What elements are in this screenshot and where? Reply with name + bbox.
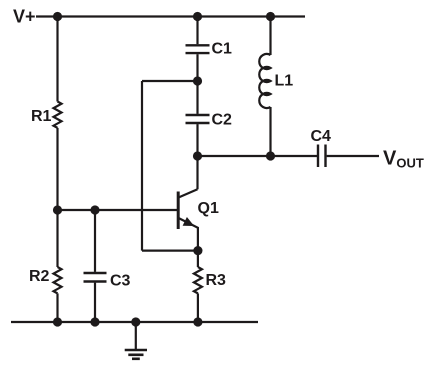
- svg-text:L1: L1: [275, 73, 294, 90]
- junction dot ground rail C3: [90, 317, 99, 326]
- wire base node to R2: [56, 210, 58, 267]
- junction dot ground rail ground symbol: [131, 317, 140, 326]
- resistor R3: [194, 267, 202, 293]
- transistor Q1 emitter arrow: [183, 217, 195, 226]
- svg-text:C4: C4: [311, 128, 332, 145]
- svg-text:C1: C1: [212, 41, 233, 58]
- svg-text:R1: R1: [31, 108, 52, 125]
- capacitor C3: [84, 273, 107, 282]
- svg-text:C2: C2: [212, 112, 233, 129]
- wire feedback vertical: [141, 81, 143, 251]
- transistor Q1 collector lead: [179, 189, 198, 197]
- wire bottom ground rail: [11, 321, 258, 323]
- capacitor C1: [186, 45, 210, 53]
- wire C1 to C2: [196, 54, 198, 114]
- capacitor C2: [186, 115, 210, 123]
- junction dot emitter node: [193, 246, 202, 255]
- wire output node horizontal: [198, 155, 318, 157]
- junction dot L1 output node: [266, 151, 275, 160]
- wire C4 to Vout: [327, 155, 379, 157]
- wire collector vertical: [196, 156, 198, 189]
- wire top rail V+: [36, 15, 305, 17]
- svg-text:VOUT: VOUT: [383, 148, 424, 171]
- resistor R2: [54, 267, 62, 293]
- ground symbol bars: [125, 350, 147, 359]
- junction dot top rail C1 column: [193, 12, 202, 21]
- inductor L1: [259, 54, 270, 108]
- svg-text:Q1: Q1: [198, 200, 219, 217]
- wire R2 bottom to ground rail: [56, 293, 58, 322]
- wire left column upper (V+ to R1): [56, 17, 58, 102]
- wire C3 top lead: [94, 210, 96, 272]
- junction dot base node C3: [90, 205, 99, 214]
- wire C2 bottom to output node: [196, 124, 198, 156]
- wire base node horizontal: [58, 209, 178, 211]
- wire feedback top horizontal: [142, 80, 198, 82]
- junction dot ground rail R2: [53, 317, 62, 326]
- capacitor C4: [318, 145, 326, 168]
- junction dot top rail L1 column: [266, 12, 275, 21]
- svg-text:C3: C3: [110, 273, 131, 290]
- wire R3 bottom to ground rail: [197, 293, 199, 322]
- resistor R1: [54, 102, 62, 128]
- wire C1 top lead: [196, 17, 198, 45]
- wire L1 bottom lead: [269, 107, 271, 156]
- wire L1 top lead: [269, 17, 271, 56]
- wire feedback bottom horizontal (to emitter): [142, 250, 198, 252]
- transistor Q1 base bar: [177, 192, 180, 230]
- svg-text:V+: V+: [13, 7, 36, 27]
- wire R1 bottom to base node: [56, 128, 58, 210]
- junction dot top rail R1 column: [53, 12, 62, 21]
- wire emitter node to R3: [197, 251, 199, 267]
- junction dot C1-C2 node: [193, 76, 202, 85]
- svg-text:R2: R2: [29, 268, 50, 285]
- svg-text:R3: R3: [206, 272, 227, 289]
- junction dot ground rail R3: [193, 317, 202, 326]
- ground stem: [135, 322, 137, 349]
- junction dot base node R1R2: [53, 205, 62, 214]
- transistor Q1 emitter lead: [179, 218, 198, 251]
- wire C3 bottom lead: [94, 283, 96, 322]
- junction dot collector output node: [193, 151, 202, 160]
